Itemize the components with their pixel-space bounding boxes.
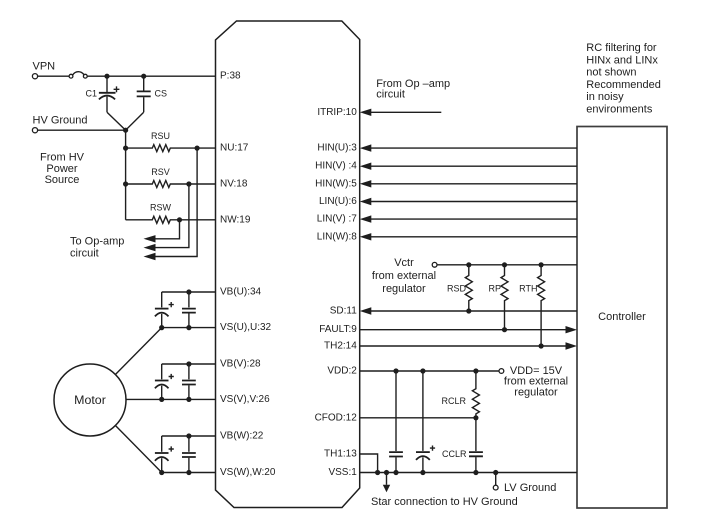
svg-text:RTH: RTH bbox=[519, 284, 537, 294]
arrow into HIN(V):4 bbox=[360, 163, 372, 170]
svg-text:TH1:13: TH1:13 bbox=[324, 449, 357, 460]
svg-text:HV Ground: HV Ground bbox=[33, 114, 88, 126]
wire RSV tap down bbox=[155, 184, 189, 248]
wire RSW tap down bbox=[155, 220, 180, 239]
wire VS(W) rail bbox=[162, 472, 216, 474]
node LV Ground terminal bbox=[493, 485, 498, 490]
svg-text:SD:11: SD:11 bbox=[330, 306, 357, 317]
wire motor to VS(W) bbox=[115, 426, 161, 473]
resistor RSU bbox=[123, 131, 216, 152]
svg-text:Motor: Motor bbox=[74, 393, 106, 407]
wire Vctr rail to controller bbox=[437, 264, 577, 266]
svg-text:NV:18: NV:18 bbox=[220, 179, 248, 190]
resistor RP bbox=[488, 265, 508, 333]
resistor RSW bbox=[126, 203, 216, 224]
wire CS lead to HV node bbox=[126, 112, 144, 130]
svg-text:environments: environments bbox=[586, 104, 653, 116]
wire LIN(W) from controller bbox=[371, 236, 577, 238]
wire ITRIP input bbox=[371, 111, 441, 113]
svg-text:RCLR: RCLR bbox=[441, 396, 466, 406]
capacitor CS bbox=[137, 76, 167, 112]
svg-text:CCLR: CCLR bbox=[442, 449, 467, 459]
svg-text:LV Ground: LV Ground bbox=[504, 482, 556, 494]
wire star stub bbox=[386, 473, 388, 485]
wire TH2 to controller bbox=[360, 345, 566, 347]
svg-text:Power: Power bbox=[46, 163, 78, 175]
svg-text:in noisy: in noisy bbox=[586, 91, 624, 103]
svg-text:LIN(W):8: LIN(W):8 bbox=[317, 231, 357, 242]
svg-text:From HV: From HV bbox=[40, 151, 85, 163]
svg-text:RSD: RSD bbox=[447, 284, 467, 294]
svg-text:regulator: regulator bbox=[382, 283, 426, 295]
svg-text:VB(U):34: VB(U):34 bbox=[220, 287, 262, 298]
wire SD to controller bbox=[371, 310, 577, 312]
svg-text:HIN(V) :4: HIN(V) :4 bbox=[315, 161, 357, 172]
wire HIN(U) from controller bbox=[371, 147, 577, 149]
junction at CS bbox=[141, 74, 146, 79]
node VDD terminal bbox=[499, 369, 504, 374]
wire TH1 bend to VSS bbox=[360, 454, 378, 473]
note: RC filtering annotation bbox=[586, 42, 661, 116]
svg-text:circuit: circuit bbox=[376, 89, 405, 101]
resistor RCLR bbox=[441, 371, 479, 420]
junction RSD top bbox=[466, 262, 471, 267]
svg-text:FAULT:9: FAULT:9 bbox=[319, 324, 357, 335]
wire VB(W) rail bbox=[162, 435, 216, 437]
arrow into HIN(U):3 bbox=[360, 144, 372, 151]
IC U1 body outline bbox=[216, 21, 360, 508]
svg-text:not shown: not shown bbox=[586, 67, 636, 79]
capacitor CVDD1 bbox=[389, 371, 403, 475]
svg-text:RSU: RSU bbox=[151, 131, 170, 141]
svg-text:VS(U),U:32: VS(U),U:32 bbox=[220, 322, 272, 333]
svg-text:regulator: regulator bbox=[514, 386, 558, 398]
capacitor CBV1 (polarized, V bootstrap) bbox=[155, 364, 174, 399]
svg-text:RSW: RSW bbox=[150, 203, 172, 213]
resistor RTH bbox=[519, 265, 544, 349]
junction TH1/VSS bbox=[375, 470, 380, 475]
node HV Ground terminal bbox=[32, 114, 87, 133]
wire CFOD rail bbox=[360, 417, 476, 419]
svg-text:RC filtering for: RC filtering for bbox=[586, 42, 657, 54]
node Vctr terminal bbox=[432, 262, 437, 267]
svg-text:VDD:2: VDD:2 bbox=[327, 366, 357, 377]
svg-text:C1: C1 bbox=[85, 89, 97, 99]
wire C1 lead to HV node bbox=[107, 112, 126, 130]
svg-text:TH2:14: TH2:14 bbox=[324, 341, 357, 352]
arrow star to HV ground bbox=[383, 485, 390, 493]
note: Vctr from external regulator bbox=[372, 257, 436, 295]
arrow into LIN(W):8 bbox=[360, 233, 372, 240]
svg-text:LIN(V) :7: LIN(V) :7 bbox=[317, 214, 357, 225]
svg-text:Star connection to HV Ground: Star connection to HV Ground bbox=[371, 496, 518, 508]
resistor RSD bbox=[447, 265, 472, 314]
wire LIN(V) from controller bbox=[371, 218, 577, 220]
svg-text:VB(W):22: VB(W):22 bbox=[220, 431, 264, 442]
svg-text:NW:19: NW:19 bbox=[220, 214, 251, 225]
wire HIN(V) from controller bbox=[371, 165, 577, 167]
wire VSS rail to controller bbox=[360, 472, 577, 474]
note: To Op-amp circuit bbox=[70, 236, 124, 260]
arrow into HIN(W):5 bbox=[360, 180, 372, 187]
svg-text:P:38: P:38 bbox=[220, 71, 241, 82]
junction LV ground lead bbox=[493, 470, 498, 475]
capacitor CBW2 (W bootstrap) bbox=[182, 433, 196, 475]
note: VDD = 15V from external regulator bbox=[504, 365, 568, 398]
motor M bbox=[54, 364, 126, 436]
wire HIN(W) from controller bbox=[371, 183, 577, 185]
arrow FAULT into controller bbox=[566, 326, 578, 333]
svg-text:circuit: circuit bbox=[70, 247, 99, 259]
arrow into LIN(U):6 bbox=[360, 198, 372, 205]
junction RP top bbox=[502, 262, 507, 267]
arrow TH2 into controller bbox=[566, 342, 578, 349]
junction VS(U) motor node bbox=[159, 325, 164, 330]
svg-text:CFOD:12: CFOD:12 bbox=[315, 412, 358, 423]
wire VS(V) rail bbox=[162, 398, 216, 400]
capacitor CBW1 (polarized, W bootstrap) bbox=[155, 436, 174, 473]
junction CVDD2 top bbox=[420, 368, 425, 373]
arrow to op-amp 1 bbox=[144, 235, 156, 242]
junction HV node bbox=[123, 128, 128, 133]
svg-text:VS(V),V:26: VS(V),V:26 bbox=[220, 394, 270, 405]
arrow into LIN(V):7 bbox=[360, 215, 372, 222]
controller block bbox=[577, 127, 667, 509]
wire VB(V) rail bbox=[162, 363, 216, 365]
svg-text:CS: CS bbox=[155, 89, 168, 99]
svg-text:To Op-amp: To Op-amp bbox=[70, 236, 124, 248]
svg-text:RSV: RSV bbox=[151, 167, 170, 177]
junction star connection bbox=[384, 470, 389, 475]
arrow into ITRIP:10 bbox=[360, 109, 372, 116]
svg-text:Recommended: Recommended bbox=[586, 79, 661, 91]
note: From HV Power Source bbox=[40, 151, 85, 186]
breaker SW1 bbox=[69, 72, 87, 78]
junction RCLR top bbox=[473, 368, 478, 373]
wire LIN(U) from controller bbox=[371, 201, 577, 203]
arrow to op-amp 3 bbox=[144, 253, 156, 260]
svg-text:RP: RP bbox=[488, 284, 501, 294]
svg-text:Source: Source bbox=[45, 174, 80, 186]
svg-text:VSS:1: VSS:1 bbox=[328, 467, 357, 478]
capacitor CBU1 (polarized, U bootstrap) bbox=[155, 292, 174, 328]
svg-text:Controller: Controller bbox=[598, 311, 646, 323]
junction VS(V) motor node bbox=[159, 397, 164, 402]
capacitor CVDD2 (polarized) bbox=[416, 371, 435, 475]
wire HV bus down bbox=[125, 130, 127, 220]
svg-text:NU:17: NU:17 bbox=[220, 143, 249, 154]
svg-text:LIN(U):6: LIN(U):6 bbox=[319, 196, 357, 207]
svg-text:VPN: VPN bbox=[33, 61, 56, 73]
wire VPN to breaker bbox=[38, 75, 69, 77]
junction VS(W) motor node bbox=[159, 470, 164, 475]
svg-text:VB(V):28: VB(V):28 bbox=[220, 359, 261, 370]
note: From Op-amp circuit bbox=[376, 78, 450, 101]
svg-text:HIN(U):3: HIN(U):3 bbox=[317, 143, 357, 154]
wire motor to VS(V) bbox=[126, 398, 162, 400]
capacitor C1 (polarized) bbox=[85, 76, 119, 112]
node VPN terminal bbox=[32, 61, 55, 79]
wire motor to VS(U) bbox=[115, 328, 161, 375]
wire VDD rail bbox=[360, 370, 499, 372]
wire VS(U) rail bbox=[162, 327, 216, 329]
svg-text:ITRIP:10: ITRIP:10 bbox=[317, 107, 357, 118]
capacitor CCLR bbox=[442, 418, 483, 475]
arrow into SD:11 bbox=[360, 307, 372, 314]
wire VB(U) rail bbox=[162, 291, 216, 293]
capacitor CBV2 (V bootstrap) bbox=[182, 361, 196, 402]
wire HV ground to node bbox=[38, 129, 126, 131]
junction CVDD1 top bbox=[393, 368, 398, 373]
wire LV ground lead bbox=[495, 473, 497, 486]
svg-text:from external: from external bbox=[372, 270, 436, 282]
svg-text:VS(W),W:20: VS(W),W:20 bbox=[220, 467, 276, 478]
wire breaker to pin P:38 bbox=[87, 75, 215, 77]
svg-text:HIN(W):5: HIN(W):5 bbox=[315, 178, 357, 189]
wire FAULT to controller bbox=[360, 329, 566, 331]
svg-text:Vctr: Vctr bbox=[394, 257, 414, 269]
resistor RSV bbox=[123, 167, 216, 188]
svg-text:HINx and LINx: HINx and LINx bbox=[586, 54, 658, 66]
junction RTH top bbox=[539, 262, 544, 267]
junction at C1 bbox=[104, 74, 109, 79]
wire RSU tap down bbox=[155, 148, 197, 256]
capacitor CBU2 (U bootstrap) bbox=[182, 289, 196, 330]
arrow to op-amp 2 bbox=[144, 244, 156, 251]
